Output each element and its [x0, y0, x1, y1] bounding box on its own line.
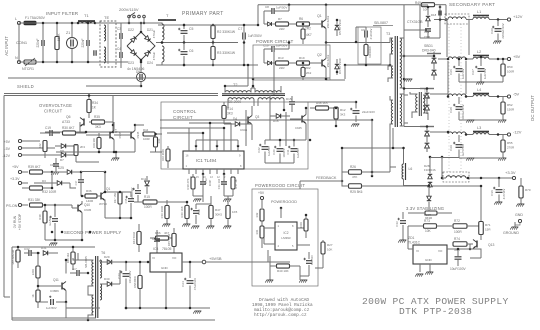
- resistor R34: [87, 96, 98, 119]
- svg-text:R39 4K7: R39 4K7: [28, 165, 41, 169]
- IC3 box: [150, 247, 182, 272]
- svg-text:R74: R74: [454, 237, 460, 241]
- transistor Q2: [310, 53, 331, 68]
- svg-text:C28: C28: [449, 107, 453, 113]
- svg-text:963R: 963R: [424, 213, 432, 217]
- IC1 bottom pins: [189, 169, 238, 174]
- wire drive net: [284, 102, 356, 140]
- svg-text:C4: C4: [117, 47, 121, 51]
- terminal L: [15, 17, 21, 25]
- label INPUT FILTER: [46, 11, 79, 16]
- svg-text:D22: D22: [128, 28, 134, 32]
- label SB-0005: [84, 256, 88, 268]
- resistor R26: [342, 165, 390, 181]
- IC1 pin digit labels: [190, 176, 233, 179]
- svg-text:Q6: Q6: [66, 115, 71, 119]
- diode D30: [100, 270, 120, 286]
- IC TL431 ZD1: [408, 236, 447, 264]
- svg-text:3K3: 3K3: [340, 113, 346, 117]
- svg-text:D31: D31: [41, 246, 47, 250]
- transformer TE: [100, 15, 116, 67]
- svg-text:W733: W733: [99, 202, 107, 206]
- resistor R13: [264, 56, 289, 70]
- label PRIMARY PART: [182, 11, 224, 17]
- label SB-0807: [373, 21, 393, 26]
- svg-text:R47: R47: [215, 208, 221, 212]
- svg-text:L4: L4: [477, 88, 481, 92]
- resistor R6: [289, 17, 312, 31]
- label POWER CIRCUIT: [256, 39, 294, 44]
- svg-text:CIRCUIT: CIRCUIT: [44, 109, 63, 114]
- wire control to t2: [246, 110, 286, 146]
- capacitor C2: [81, 22, 89, 64]
- wire snubber taps: [344, 27, 392, 79]
- svg-text:1uF/50V: 1uF/50V: [267, 146, 271, 156]
- svg-text:470uF: 470uF: [152, 52, 156, 61]
- svg-text:10uF/50V: 10uF/50V: [131, 187, 134, 198]
- diode D28 pair: [428, 156, 432, 188]
- wire T6 primary: [73, 253, 94, 318]
- capacitor C31: [70, 267, 88, 276]
- wire primary top bus: [158, 24, 258, 27]
- svg-text:D30: D30: [104, 277, 110, 281]
- wire aux rails: [160, 120, 372, 176]
- svg-text:2n2/1KV: 2n2/1KV: [369, 29, 373, 40]
- svg-text:C24: C24: [181, 281, 185, 287]
- wire IC1 pin risers: [160, 122, 238, 146]
- bus junction dots: [37, 19, 468, 310]
- svg-text:D6 BYV26C: D6 BYV26C: [338, 57, 342, 74]
- transistor Q1 A733: [81, 171, 110, 218]
- resistor R33c: [92, 133, 101, 152]
- svg-text:R25 5K6: R25 5K6: [350, 190, 363, 194]
- resistor R22: [38, 141, 47, 159]
- terminal PS-ON: [6, 203, 28, 208]
- svg-text:IC2: IC2: [284, 231, 289, 235]
- wire 3v3 toroid feed: [430, 156, 459, 180]
- resistor R16b: [161, 146, 170, 168]
- svg-text:R16 2K39: R16 2K39: [161, 149, 165, 161]
- svg-text:SB-0005: SB-0005: [84, 256, 88, 268]
- resistor R46b: [310, 101, 336, 110]
- resistor R3: [211, 43, 236, 67]
- diode D31: [41, 246, 58, 255]
- transistor Q11: [50, 260, 66, 302]
- terminal +5V c: [12, 165, 28, 174]
- wire ic2 pins: [206, 228, 310, 262]
- svg-text:C29: C29: [449, 145, 453, 151]
- resistor R47: [206, 196, 222, 229]
- svg-text:SB-0807: SB-0807: [374, 21, 388, 25]
- diode D3: [34, 179, 76, 188]
- capacitor C16b: [50, 158, 59, 175]
- svg-text:C6: C6: [189, 49, 193, 53]
- svg-text:C36: C36: [490, 190, 494, 196]
- svg-text:C22: C22: [257, 147, 261, 153]
- svg-text:1uF/50V: 1uF/50V: [310, 255, 314, 265]
- svg-text:VI: VI: [152, 256, 155, 260]
- svg-text:2K2: 2K2: [306, 71, 312, 75]
- label 4x 1N5406: [127, 67, 144, 71]
- resistor R25: [342, 181, 481, 194]
- terminal -12Vb: [2, 153, 55, 158]
- svg-text:C5: C5: [189, 27, 193, 31]
- terminal -5Vb: [4, 146, 55, 151]
- svg-text:R55: R55: [507, 141, 513, 145]
- svg-text:Q11: Q11: [53, 278, 59, 282]
- svg-text:L: L: [15, 17, 17, 21]
- svg-text:R32 100R: R32 100R: [42, 190, 57, 194]
- svg-text:L6: L6: [409, 167, 413, 171]
- svg-text:1uF/16V: 1uF/16V: [483, 69, 487, 80]
- wire row3 gnd: [459, 120, 503, 123]
- terminal +5V pg: [258, 191, 265, 208]
- wire left long riser: [113, 132, 134, 202]
- transistor Q7: [86, 122, 122, 152]
- terminal +5VSB: [202, 256, 222, 264]
- svg-text:R10 390R: R10 390R: [160, 206, 164, 219]
- svg-text:SECOND POWER SUPPLY: SECOND POWER SUPPLY: [64, 230, 121, 235]
- choke L3: [473, 126, 489, 135]
- resistor R41: [255, 226, 264, 248]
- label POWERGOOD CIRCUIT: [255, 183, 305, 188]
- svg-text:4n7: 4n7: [103, 28, 107, 33]
- resistor R56 4K7: [150, 231, 176, 240]
- svg-text:C945: C945: [295, 126, 302, 130]
- svg-text:R58 680R: R58 680R: [133, 276, 137, 288]
- resistor R18b: [186, 174, 195, 196]
- capacitor C13: [200, 174, 212, 196]
- transformer T: [152, 13, 176, 65]
- svg-text:R70: R70: [525, 188, 531, 192]
- terminal +5V: [489, 54, 521, 61]
- resistor R72: [453, 219, 481, 234]
- terminal -5V: [489, 92, 520, 99]
- choke winding row3: [448, 94, 466, 96]
- svg-text:+5V: +5V: [4, 140, 11, 144]
- svg-text:D24: D24: [147, 61, 153, 65]
- wire L rail: [19, 23, 100, 62]
- svg-text:R19: R19: [299, 56, 305, 60]
- svg-text:+12V: +12V: [513, 14, 523, 19]
- svg-text:NTCR1: NTCR1: [22, 67, 34, 71]
- svg-text:100R: 100R: [299, 222, 303, 228]
- capacitor C12b: [191, 204, 202, 229]
- svg-text:+3.3V: +3.3V: [505, 170, 516, 175]
- capacitor C14: [350, 101, 375, 127]
- svg-text:GND: GND: [515, 213, 523, 217]
- capacitor C20: [490, 20, 505, 44]
- svg-text:470uF: 470uF: [152, 30, 156, 39]
- svg-text:C9: C9: [361, 28, 365, 32]
- svg-text:1uF/250V: 1uF/250V: [248, 34, 263, 38]
- capacitor C28: [449, 97, 465, 120]
- resistor R20 100R/2W: [364, 38, 372, 66]
- svg-text:560K: 560K: [57, 33, 61, 41]
- svg-text:VI: VI: [416, 249, 419, 253]
- transformer T6: [92, 251, 105, 318]
- svg-text:SECONDARY PART: SECONDARY PART: [449, 2, 495, 7]
- title DTK PTP-2038: [399, 306, 472, 317]
- svg-text:R12: R12: [340, 108, 346, 112]
- wire T2 top link: [251, 78, 255, 88]
- svg-text:CIRCUIT: CIRCUIT: [173, 115, 193, 120]
- powergood box: [252, 189, 318, 286]
- svg-text:10K: 10K: [425, 229, 432, 233]
- svg-text:R44: R44: [143, 128, 149, 132]
- svg-text:1W: 1W: [230, 30, 236, 34]
- capacitor C32: [24, 247, 40, 256]
- svg-text:220R: 220R: [31, 269, 35, 275]
- svg-text:R41: R41: [255, 229, 259, 234]
- resistor R32: [22, 172, 57, 194]
- wire top secondary feed: [0, 0, 1, 1]
- wire ovp bottom: [56, 151, 135, 162]
- shield line: [4, 78, 330, 297]
- capacitor C21: [49, 204, 58, 240]
- node feedback: [300, 147, 343, 189]
- svg-text:1K5: 1K5: [232, 210, 238, 214]
- resistor R39: [28, 165, 53, 174]
- bridge rectifier D21-D24: [127, 28, 155, 65]
- diode D5: [335, 18, 342, 36]
- capacitor C35: [131, 184, 141, 202]
- choke winding row4: [448, 132, 466, 134]
- svg-text:SBD1: SBD1: [424, 44, 433, 48]
- svg-text:R72: R72: [454, 219, 460, 223]
- capacitor C9: [361, 28, 373, 39]
- transistor Q1: [310, 14, 331, 29]
- resistor R20b: [180, 202, 190, 227]
- svg-text:140R: 140R: [86, 199, 94, 203]
- svg-text:1uF/50V: 1uF/50V: [276, 6, 287, 10]
- terminal +12V: [489, 14, 523, 21]
- wire Q2 collector: [326, 43, 345, 81]
- svg-text:POWERGOOD CIRCUIT: POWERGOOD CIRCUIT: [255, 183, 305, 188]
- svg-text:C3866: C3866: [50, 289, 59, 293]
- svg-text:100uF/16V: 100uF/16V: [128, 270, 132, 283]
- svg-text:C16: C16: [50, 163, 56, 167]
- svg-text:+5V: +5V: [12, 165, 19, 169]
- svg-text:C945: C945: [84, 208, 92, 212]
- svg-text:2K3: 2K3: [80, 145, 85, 149]
- svg-text:200V/115V: 200V/115V: [119, 7, 139, 12]
- svg-text:Q1: Q1: [106, 187, 110, 191]
- svg-text:270R: 270R: [507, 146, 515, 150]
- wire tl431 nets: [398, 226, 481, 277]
- svg-text:C26: C26: [449, 69, 453, 75]
- svg-text:0V RUN: 0V RUN: [13, 215, 17, 228]
- diode D24 pair -12: [420, 126, 434, 152]
- svg-text:DTK PTP-2038: DTK PTP-2038: [399, 306, 472, 317]
- svg-text:47K: 47K: [352, 175, 357, 179]
- svg-text:+5V: +5V: [258, 191, 265, 195]
- svg-text:1000uF/25V: 1000uF/25V: [461, 104, 465, 119]
- varistor Z1: [66, 22, 78, 64]
- svg-text:C15: C15: [152, 237, 158, 241]
- resistor R43: [132, 224, 141, 252]
- svg-text:+5VSB: +5VSB: [209, 256, 222, 261]
- transistor Q10: [52, 201, 92, 240]
- svg-text:100R/2W: 100R/2W: [368, 46, 372, 58]
- capacitor C7: [238, 24, 263, 67]
- choke winding row1: [445, 14, 469, 24]
- wire row2 gnd rail: [459, 82, 503, 85]
- capacitor C4: [117, 23, 122, 50]
- svg-text:10uF: 10uF: [197, 209, 201, 216]
- wire pg bottom: [265, 256, 323, 283]
- power circuit box: [253, 45, 330, 80]
- resistor R65: [11, 246, 20, 268]
- resistor R27: [321, 240, 333, 262]
- svg-text:100R: 100R: [507, 70, 515, 74]
- svg-text:C15: C15: [124, 198, 128, 203]
- fuse F1: [24, 16, 46, 25]
- wire bridge vertical joins: [140, 22, 143, 31]
- svg-text:100R: 100R: [144, 205, 152, 209]
- label SECOND POWER SUPPLY: [64, 230, 121, 235]
- resistor R38: [38, 204, 47, 240]
- svg-text:R13: R13: [278, 56, 284, 60]
- svg-text:-12V: -12V: [2, 154, 10, 158]
- svg-text:Q10: Q10: [84, 203, 90, 207]
- svg-text:1uF/16V: 1uF/16V: [461, 69, 465, 80]
- svg-text:+5V: +5V: [513, 54, 521, 59]
- svg-text:Q1: Q1: [317, 14, 322, 18]
- svg-text:R43 5K06: R43 5K06: [132, 231, 136, 244]
- capacitor C29: [449, 135, 465, 158]
- IC2 box: [275, 222, 297, 250]
- resistor R12: [334, 107, 346, 126]
- svg-text:D3: D3: [42, 179, 46, 183]
- svg-text:220nF: 220nF: [36, 38, 40, 47]
- wire q11 net: [12, 286, 96, 318]
- wire row2: [438, 58, 473, 60]
- resistor R37: [113, 192, 122, 218]
- svg-text:R17 1K: R17 1K: [234, 179, 238, 188]
- svg-text:30K5: 30K5: [215, 213, 222, 217]
- svg-text:R30 4K7: R30 4K7: [62, 126, 75, 130]
- svg-text:C20: C20: [490, 28, 494, 34]
- choke L2: [473, 50, 489, 59]
- svg-text:AC INPUT: AC INPUT: [4, 36, 9, 56]
- resistor R10: [160, 200, 170, 227]
- svg-text:3K3: 3K3: [227, 112, 233, 116]
- resistor R30: [62, 126, 87, 135]
- svg-text:C11 102: C11 102: [217, 178, 221, 189]
- svg-text:DC OUTPUT: DC OUTPUT: [530, 95, 535, 121]
- terminal +3.3V b: [10, 177, 28, 185]
- resistor R17b: [231, 177, 238, 196]
- svg-text:C19: C19: [424, 30, 430, 34]
- switch SW1: [128, 13, 146, 25]
- thermistor NTCR1: [22, 58, 36, 71]
- terminal -12V: [489, 130, 522, 137]
- transistor Q3: [248, 106, 259, 140]
- capacitor C3: [94, 50, 96, 56]
- svg-text:R65 68K/1W: R65 68K/1W: [11, 249, 15, 264]
- wire row4: [430, 132, 473, 135]
- wire power top feed: [258, 3, 404, 25]
- capacitor C34: [447, 249, 466, 271]
- svg-text:1uF/50V: 1uF/50V: [46, 306, 57, 310]
- resistor 963R: [408, 208, 452, 220]
- label 0V RUN: [13, 213, 22, 230]
- choke L1: [473, 10, 489, 19]
- diode D23 pair -5: [420, 88, 434, 114]
- resistor R44: [134, 195, 167, 209]
- svg-text:GND: GND: [161, 266, 169, 270]
- capacitor C33b: [395, 212, 406, 236]
- wire rows34 vertical: [448, 61, 466, 96]
- resistor R36: [85, 189, 101, 203]
- svg-text:D18: D18: [431, 13, 437, 17]
- svg-text:R66 1K2: R66 1K2: [66, 252, 70, 263]
- resistor R71: [479, 185, 492, 240]
- svg-text:R71: R71: [485, 223, 491, 227]
- capacitor C18: [304, 252, 315, 276]
- wire ovp bus: [45, 94, 114, 132]
- svg-text:C32: C32: [24, 247, 30, 251]
- svg-text:CTX31GB: CTX31GB: [407, 20, 423, 24]
- svg-text:Q2: Q2: [317, 53, 322, 57]
- svg-text:R2 330K: R2 330K: [217, 30, 231, 34]
- svg-text:D25: D25: [58, 166, 64, 170]
- IC1 box: [183, 151, 244, 169]
- wire control mids: [167, 196, 211, 204]
- svg-text:4n7/16V: 4n7/16V: [502, 189, 506, 200]
- svg-text:R50: R50: [507, 65, 513, 69]
- svg-text:R35: R35: [94, 115, 100, 119]
- svg-text:4K7: 4K7: [306, 33, 312, 37]
- terminal N: [15, 56, 21, 64]
- capacitor C4b: [117, 47, 122, 68]
- svg-text:R52: R52: [507, 103, 513, 107]
- capacitor C15b: [152, 230, 160, 257]
- svg-text:+3.3V: +3.3V: [10, 177, 20, 181]
- svg-text:R31 33K: R31 33K: [28, 198, 41, 202]
- svg-text:22R: 22R: [279, 27, 285, 31]
- resistor R48: [223, 196, 237, 229]
- svg-text:1uF/50V: 1uF/50V: [276, 44, 287, 48]
- snubber box secondary: [420, 5, 440, 38]
- svg-text:R3 330K: R3 330K: [217, 51, 231, 55]
- svg-text:C945: C945: [136, 131, 140, 138]
- svg-text:2200uF/16V: 2200uF/16V: [501, 23, 505, 38]
- svg-text:100R: 100R: [454, 230, 462, 234]
- terminal +5Vb: [4, 139, 41, 144]
- choke L4: [473, 88, 489, 97]
- dashed coupling lines: [449, 24, 461, 176]
- svg-text:R34: R34: [92, 101, 98, 105]
- svg-text:GROUND: GROUND: [503, 231, 519, 235]
- svg-text:2SC4242: 2SC4242: [326, 15, 330, 28]
- capacitor C15 sps: [124, 192, 134, 218]
- svg-text:1W: 1W: [230, 51, 236, 55]
- credits text: [252, 298, 313, 318]
- wire Q1 collector rail: [325, 5, 390, 44]
- resistor R55: [498, 135, 515, 161]
- svg-text:Q3: Q3: [255, 115, 259, 119]
- transformer T1: [77, 13, 97, 24]
- choke winding 3v3: [443, 172, 469, 182]
- svg-text:R7: R7: [278, 17, 282, 21]
- snubber box: [358, 27, 381, 64]
- svg-text:R40 10K: R40 10K: [277, 269, 289, 273]
- label SB-2000: [228, 100, 241, 104]
- transistor Q6: [62, 115, 89, 127]
- resistor R73: [408, 219, 452, 233]
